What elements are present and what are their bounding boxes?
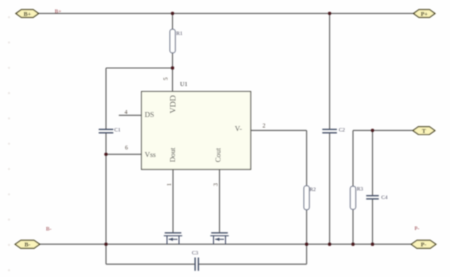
svg-text:R3: R3 (357, 187, 364, 193)
svg-text:B+: B+ (24, 12, 32, 18)
svg-text:6: 6 (125, 146, 128, 152)
svg-text:C2: C2 (339, 128, 346, 134)
svg-text:B+: B+ (55, 9, 62, 15)
svg-text:1: 1 (167, 183, 173, 186)
svg-text:B-: B- (24, 243, 30, 249)
svg-text:T: T (422, 129, 426, 135)
svg-text:P-: P- (421, 243, 427, 249)
svg-text:C1: C1 (114, 128, 121, 134)
svg-text:VDD: VDD (168, 95, 178, 113)
svg-text:P+: P+ (421, 12, 429, 18)
svg-text:C4: C4 (381, 195, 388, 201)
svg-text:Vss: Vss (145, 150, 156, 159)
svg-text:3: 3 (213, 183, 219, 186)
svg-text:C3: C3 (192, 251, 199, 257)
svg-text:R2: R2 (310, 187, 317, 193)
svg-text:Dout: Dout (168, 147, 177, 163)
svg-text:V-: V- (235, 124, 243, 133)
svg-text:5: 5 (164, 77, 170, 80)
svg-text:4: 4 (125, 110, 128, 116)
svg-text:DS: DS (145, 110, 155, 119)
svg-text:R1: R1 (176, 31, 183, 37)
svg-text:2: 2 (263, 124, 266, 130)
svg-text:Cout: Cout (213, 147, 222, 162)
svg-text:U1: U1 (180, 81, 188, 88)
svg-text:P-: P- (415, 226, 420, 232)
svg-text:B-: B- (46, 227, 52, 233)
